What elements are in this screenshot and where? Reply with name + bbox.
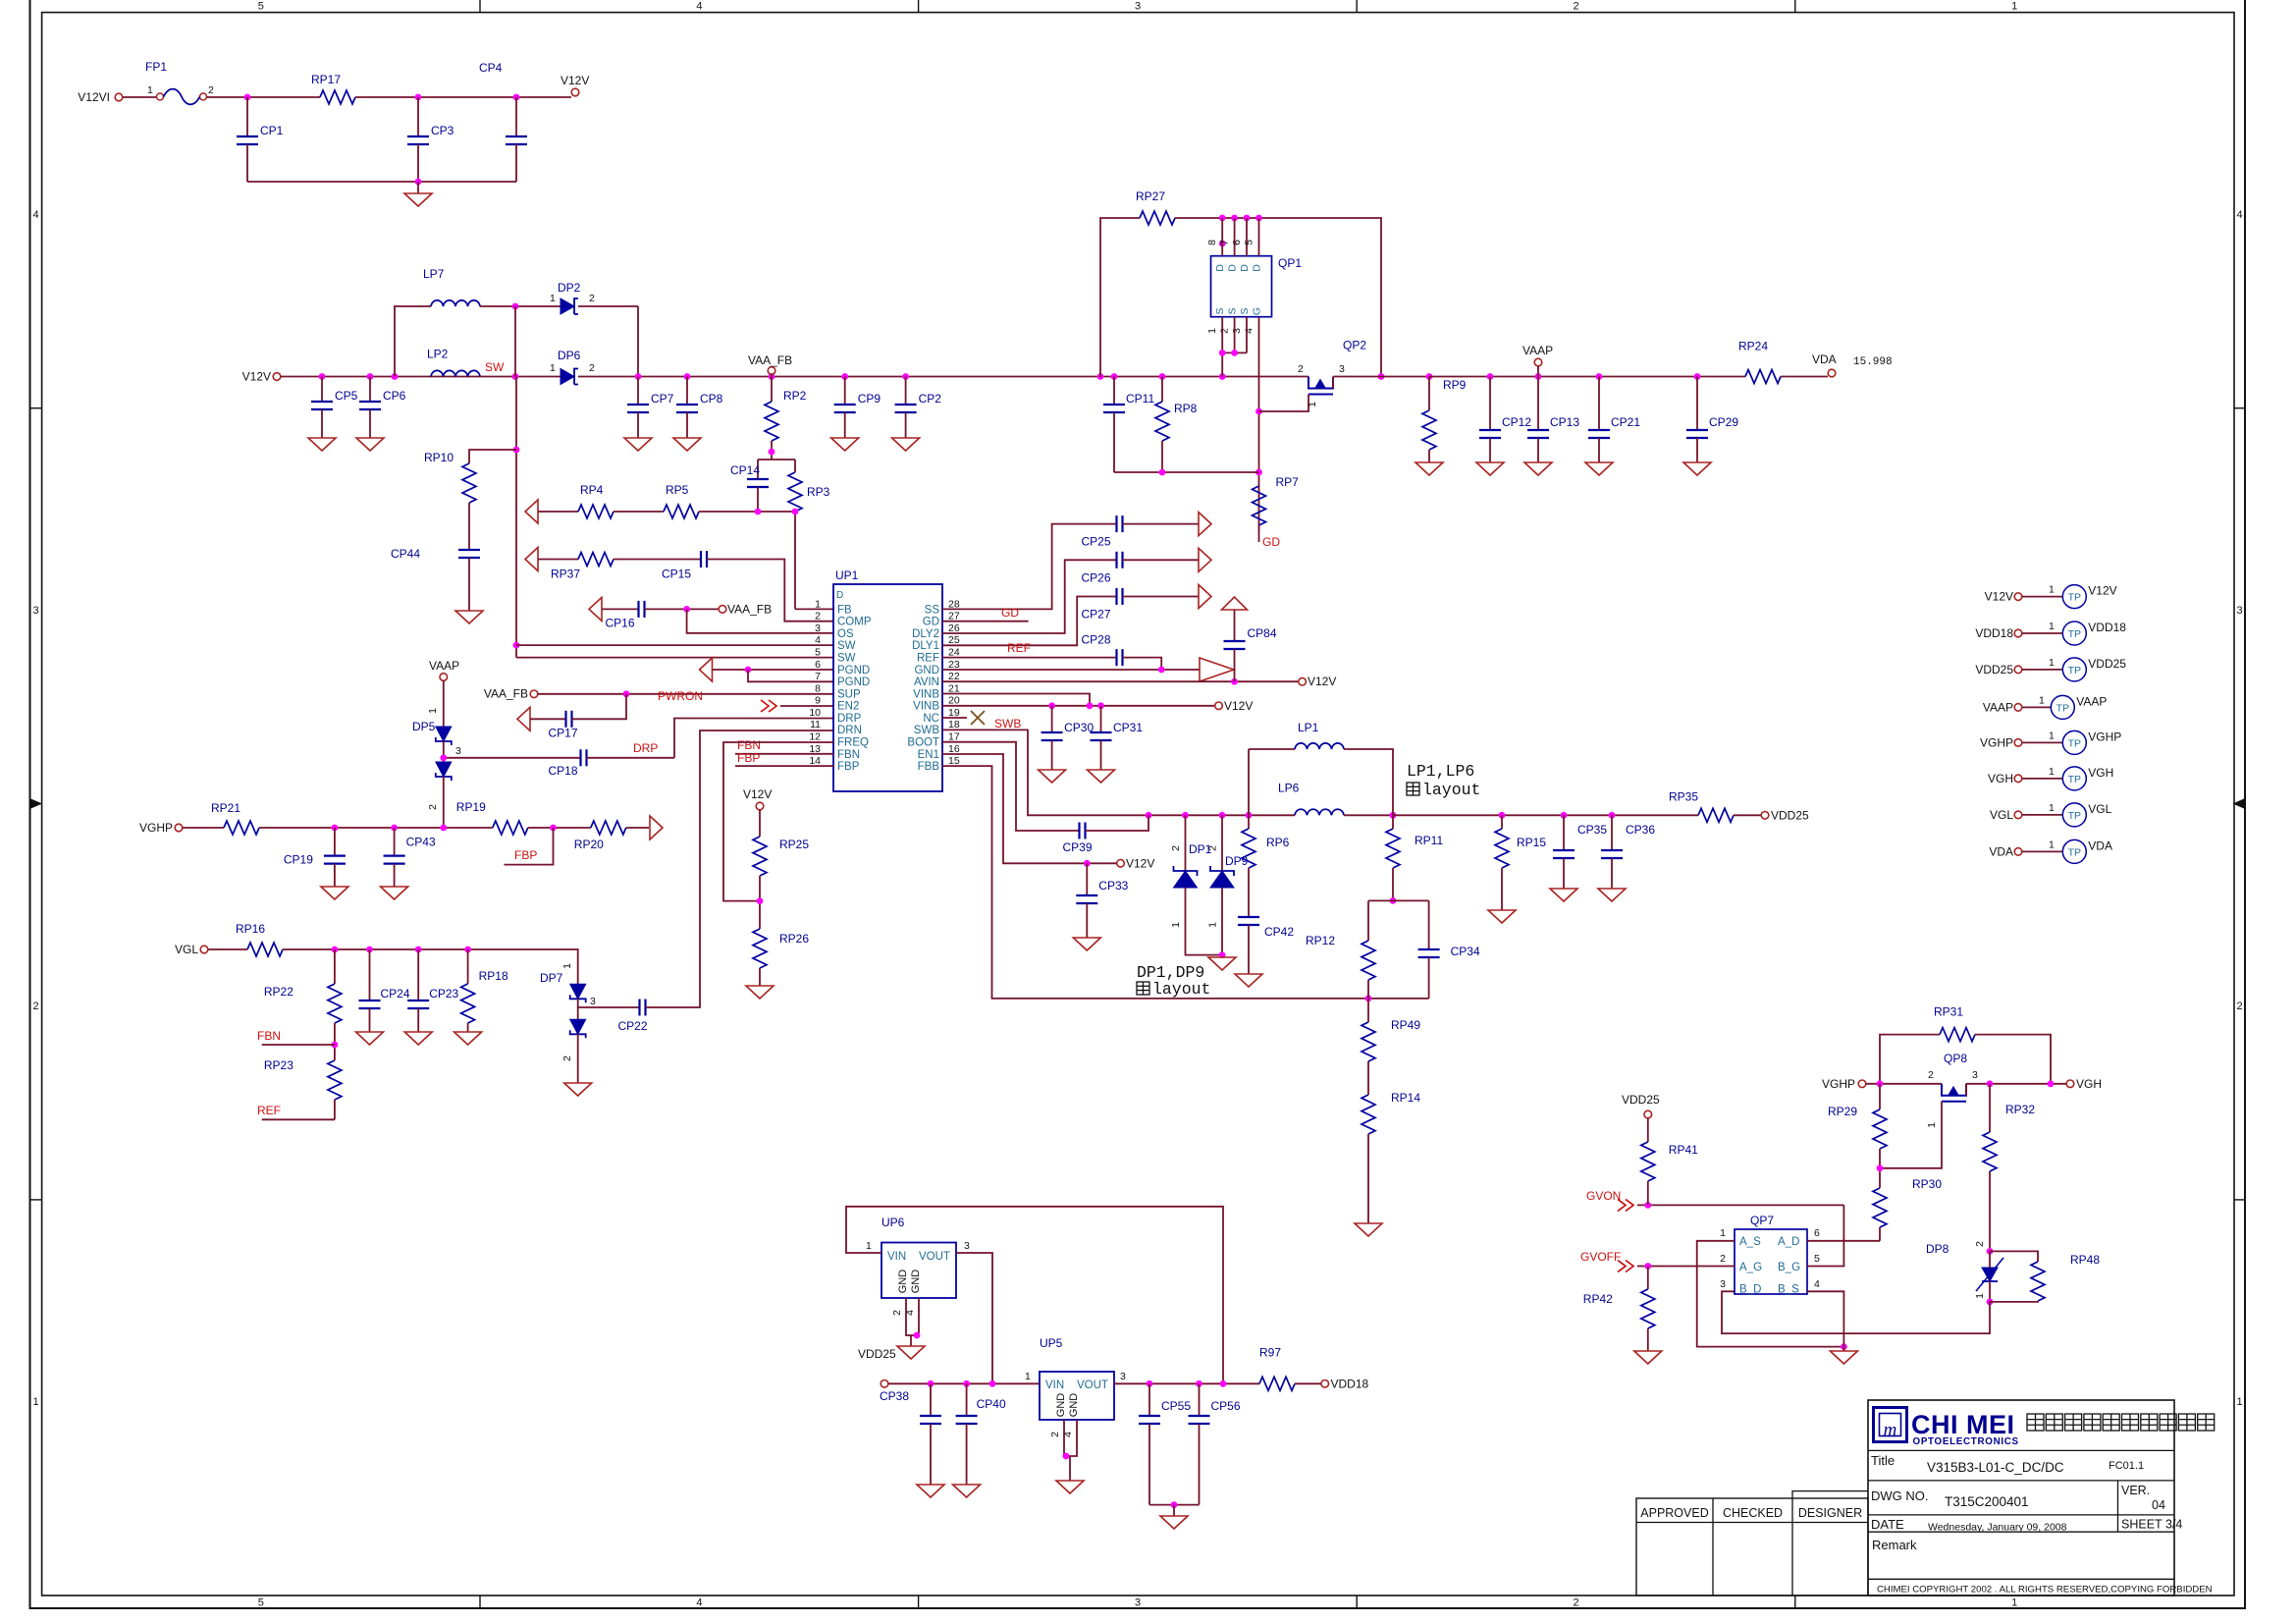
svg-text:2: 2 [815, 611, 821, 622]
wire [1989, 1281, 1991, 1302]
svg-text:VGL: VGL [1990, 808, 2013, 822]
terminal VGL [2014, 811, 2022, 819]
resistor RP29 [1873, 1109, 1887, 1149]
svg-text:m: m [1884, 1420, 1897, 1440]
junction [1097, 373, 1104, 380]
wire GND row [942, 669, 1200, 671]
svg-text:9: 9 [815, 695, 821, 707]
svg-text:CP84: CP84 [1248, 626, 1277, 640]
svg-text:RP21: RP21 [211, 801, 240, 815]
svg-text:GVOFF: GVOFF [1580, 1250, 1621, 1264]
wire [1148, 1424, 1150, 1505]
wire GVON [1637, 1204, 1843, 1206]
svg-text:RP16: RP16 [236, 922, 265, 936]
inductor LP2 [431, 370, 480, 376]
wire [966, 1383, 968, 1416]
svg-text:2: 2 [2236, 1001, 2242, 1012]
svg-text:FB: FB [837, 604, 852, 616]
terminal V12VI [115, 93, 123, 101]
svg-text:FBN: FBN [257, 1029, 281, 1043]
wire [1696, 377, 1698, 431]
ground [673, 438, 701, 451]
wire [469, 450, 516, 463]
svg-text:REF: REF [257, 1104, 281, 1117]
offpage chevron GVON [1618, 1199, 1633, 1211]
zener diode DP8 [1982, 1268, 1998, 1281]
junction [841, 373, 848, 380]
ground [892, 438, 920, 451]
svg-text:RP6: RP6 [1266, 836, 1290, 849]
wire [577, 999, 579, 1019]
svg-text:T315C200401: T315C200401 [1945, 1494, 2029, 1509]
terminal VGHP [2014, 739, 2022, 747]
junction [513, 447, 520, 454]
svg-text:1: 1 [550, 362, 556, 374]
wire [2022, 706, 2052, 708]
svg-text:D: D [1214, 264, 1226, 272]
wire [713, 669, 834, 671]
wire [1100, 706, 1102, 732]
svg-text:CP43: CP43 [406, 836, 436, 849]
wire [2022, 632, 2063, 634]
ground [1415, 462, 1443, 475]
wire [417, 1008, 419, 1032]
resistor RP41 [1641, 1142, 1655, 1181]
wire [1879, 1084, 1881, 1109]
wire [1086, 863, 1088, 895]
terminal VDD18 [2014, 629, 2022, 637]
junction [1561, 812, 1568, 819]
svg-text:CP21: CP21 [1611, 415, 1640, 429]
svg-text:3: 3 [1972, 1069, 1978, 1081]
svg-text:V12V: V12V [1985, 590, 2013, 604]
terminal V12V [1215, 702, 1223, 710]
svg-text:23: 23 [948, 659, 960, 671]
offpage chevron GVOFF [1618, 1261, 1633, 1272]
svg-text:SW: SW [837, 640, 856, 652]
zone tick right [2234, 1199, 2245, 1201]
svg-text:VDD25: VDD25 [1771, 809, 1809, 823]
svg-text:VGHP: VGHP [1980, 735, 2013, 749]
svg-text:1: 1 [2049, 839, 2055, 850]
svg-text:TP: TP [2056, 702, 2069, 714]
svg-text:UP1: UP1 [835, 568, 859, 582]
svg-text:SUP: SUP [837, 688, 861, 700]
wire [587, 757, 675, 759]
ground [1488, 910, 1516, 923]
svg-text:VOUT: VOUT [919, 1251, 950, 1263]
svg-text:VAAP: VAAP [1522, 344, 1553, 357]
capacitor CP30 [1041, 731, 1063, 733]
svg-text:CP34: CP34 [1451, 945, 1480, 958]
title block row lines [1868, 1449, 2174, 1451]
wire [394, 864, 396, 887]
wire [2022, 850, 2063, 852]
svg-text:CP55: CP55 [1161, 1399, 1191, 1413]
capacitor CP42 [1238, 916, 1259, 918]
wire [2022, 596, 2063, 598]
wire [1295, 1382, 1321, 1384]
svg-text:V12VI: V12VI [78, 90, 110, 104]
junction [1084, 860, 1091, 867]
svg-text:V12V: V12V [242, 370, 271, 384]
junction [366, 947, 373, 953]
center mark right [2233, 799, 2245, 809]
svg-text:2: 2 [1574, 1, 1579, 13]
offpage arrow [650, 816, 663, 839]
ground [454, 1032, 482, 1045]
svg-text:Remark: Remark [1872, 1538, 1917, 1552]
svg-text:5: 5 [258, 1597, 264, 1609]
junction [550, 825, 557, 832]
junction [244, 94, 251, 101]
wire FBB [942, 766, 1429, 999]
svg-text:5: 5 [1814, 1253, 1820, 1265]
ground [1235, 974, 1262, 987]
svg-text:CP18: CP18 [549, 764, 578, 778]
terminal VAAP [2014, 704, 2022, 712]
testpoint TP VGH [2062, 767, 2086, 790]
title block outline [1868, 1400, 2174, 1596]
junction [367, 373, 374, 380]
wire [1148, 1383, 1150, 1416]
capacitor CP15 [700, 551, 702, 568]
junction [755, 509, 762, 515]
IC UP1 body [833, 584, 942, 791]
capacitor CP6 [359, 401, 381, 403]
svg-text:5: 5 [1244, 240, 1255, 245]
wire [1367, 1134, 1369, 1223]
inductor LP1 [1295, 743, 1344, 749]
svg-text:RP22: RP22 [264, 985, 294, 999]
wire QP8 gate [1880, 1102, 1942, 1168]
svg-text:CP13: CP13 [1550, 415, 1579, 429]
wire [1501, 815, 1503, 829]
svg-text:VAA_FB: VAA_FB [748, 353, 792, 367]
wire [334, 949, 336, 984]
capacitor CP13 [1527, 429, 1549, 431]
junction [392, 373, 399, 380]
ground [381, 887, 408, 899]
svg-text:1: 1 [550, 293, 556, 304]
svg-text:VDA: VDA [1812, 352, 1837, 366]
capacitor CP56 [1189, 1415, 1210, 1417]
junction [1426, 373, 1433, 380]
approval table [1636, 1498, 1868, 1596]
wire [1173, 1505, 1175, 1516]
junction [1841, 1343, 1847, 1350]
svg-text:CP6: CP6 [383, 389, 406, 403]
junction [1365, 996, 1372, 1002]
wire [637, 306, 639, 377]
capacitor CP28 [1115, 649, 1117, 666]
wire [1344, 749, 1393, 815]
wire QP2 gate [1259, 395, 1309, 412]
junction [769, 373, 775, 380]
ground [1683, 462, 1711, 475]
wire QP1 S3 [1246, 317, 1248, 353]
wire [468, 503, 470, 550]
wire [1123, 559, 1200, 561]
wire [1185, 815, 1187, 871]
wire [183, 827, 224, 829]
svg-text:LP7: LP7 [423, 267, 445, 281]
resistor RP37 [578, 553, 614, 567]
svg-text:VER.: VER. [2121, 1484, 2150, 1497]
junction [1987, 1299, 1994, 1306]
no-connect X [971, 711, 985, 725]
testpoint TP VGHP [2062, 730, 2086, 754]
svg-text:8: 8 [1206, 240, 1218, 245]
svg-text:4: 4 [696, 1, 702, 13]
resistor RP30 [1873, 1188, 1887, 1227]
junction [792, 509, 799, 515]
svg-text:DLY1: DLY1 [912, 640, 939, 652]
svg-text:APPROVED: APPROVED [1640, 1506, 1708, 1520]
capacitor CP14 [747, 478, 769, 480]
terminal V12V [1117, 860, 1125, 868]
testpoint TP VGL [2062, 803, 2086, 827]
capacitor CP19 [324, 854, 346, 856]
svg-text:RP15: RP15 [1517, 836, 1546, 849]
wire [1086, 815, 1149, 831]
ground [356, 1032, 384, 1045]
svg-text:DRP: DRP [837, 713, 862, 725]
svg-text:VAAP: VAAP [2076, 694, 2107, 708]
wire [1990, 1251, 2038, 1262]
ground [404, 1032, 432, 1045]
wire [530, 718, 566, 720]
wire [528, 827, 591, 829]
wire [417, 949, 419, 1001]
terminal VAA_FB [719, 606, 726, 614]
svg-text:FBP: FBP [837, 761, 860, 773]
svg-text:GD: GD [1262, 535, 1280, 549]
svg-text:3: 3 [1135, 1597, 1141, 1609]
wire [1392, 815, 1394, 829]
svg-text:1: 1 [2039, 694, 2045, 706]
capacitor CP38 [920, 1415, 941, 1417]
svg-text:8: 8 [815, 682, 821, 694]
wire [281, 376, 561, 378]
svg-text:7: 7 [815, 671, 821, 682]
zone tick top [479, 0, 481, 13]
svg-text:2: 2 [589, 293, 595, 304]
svg-text:G: G [1252, 307, 1263, 315]
junction [1987, 1248, 1994, 1255]
svg-text:GVON: GVON [1586, 1189, 1621, 1203]
diode DP5b [436, 762, 452, 777]
wire [1100, 740, 1102, 770]
svg-text:1: 1 [2011, 1, 2017, 13]
junction [415, 94, 422, 101]
wire FBN stub [735, 753, 833, 755]
wire [645, 608, 720, 610]
wire [1161, 441, 1163, 472]
diode DP7 [570, 984, 586, 999]
wire QP1 G [1258, 317, 1260, 530]
ground [1634, 1351, 1662, 1364]
wire [1100, 218, 1140, 377]
junction [1087, 702, 1094, 709]
wire [905, 377, 907, 406]
svg-text:VGH: VGH [2088, 766, 2113, 780]
svg-text:GND: GND [897, 1270, 909, 1294]
wire [1367, 980, 1369, 999]
svg-text:SW: SW [485, 360, 505, 374]
ground [356, 438, 384, 451]
wire [1221, 815, 1223, 871]
svg-text:RP9: RP9 [1443, 378, 1467, 392]
svg-text:VAA_FB: VAA_FB [484, 687, 528, 701]
wire SUP [538, 693, 833, 695]
svg-text:LP1: LP1 [1298, 721, 1319, 734]
svg-text:2: 2 [1170, 845, 1182, 851]
junction [1987, 1080, 1994, 1087]
svg-text:3: 3 [1720, 1278, 1726, 1290]
wire [1965, 1084, 1967, 1096]
offpage arrow [589, 597, 602, 621]
svg-text:VDD25: VDD25 [2088, 657, 2126, 671]
wire [1086, 903, 1088, 938]
offpage arrow [1199, 585, 1211, 609]
svg-text:VAAP: VAAP [1983, 700, 2013, 714]
svg-text:OPTOELECTRONICS: OPTOELECTRONICS [1913, 1436, 2019, 1447]
svg-text:V12V: V12V [1308, 675, 1336, 688]
wire [1501, 868, 1503, 910]
svg-text:QP2: QP2 [1343, 339, 1366, 352]
svg-text:S: S [1239, 307, 1251, 314]
capacitor CP31 [1091, 731, 1112, 733]
svg-text:CP36: CP36 [1626, 823, 1655, 837]
svg-text:RP27: RP27 [1136, 189, 1165, 203]
svg-text:NC: NC [923, 713, 939, 725]
wire [443, 741, 445, 762]
ground [1073, 938, 1100, 950]
junction [1158, 667, 1165, 674]
wire [321, 377, 323, 403]
svg-text:RP41: RP41 [1669, 1143, 1698, 1157]
terminal V12V [571, 88, 579, 96]
capacitor CP18 [579, 749, 581, 766]
svg-text:GD: GD [923, 617, 939, 628]
wire [1114, 471, 1259, 473]
terminal V12V [756, 802, 764, 810]
capacitor CP39 [1078, 823, 1080, 839]
svg-text:RP48: RP48 [2070, 1253, 2100, 1267]
svg-text:16: 16 [948, 743, 960, 755]
svg-text:CP22: CP22 [618, 1019, 648, 1033]
wire [578, 1006, 640, 1008]
junction [989, 1380, 996, 1387]
ground [1355, 1223, 1382, 1236]
resistor RP11 [1386, 829, 1400, 868]
junction [440, 825, 447, 832]
wire [602, 608, 639, 610]
wire SS [942, 524, 1117, 610]
svg-text:LP2: LP2 [427, 348, 449, 361]
terminal VAAP [440, 674, 448, 681]
junction [332, 1042, 339, 1049]
wire UP6 loop [846, 1207, 1223, 1384]
wire [123, 96, 157, 98]
svg-text:1: 1 [561, 963, 573, 969]
wire [1367, 1061, 1369, 1095]
wire [759, 968, 761, 986]
svg-text:CP40: CP40 [977, 1397, 1006, 1411]
svg-text:1: 1 [2049, 730, 2055, 741]
junction [512, 303, 519, 310]
svg-text:04: 04 [2152, 1498, 2165, 1512]
svg-text:FP1: FP1 [145, 60, 167, 74]
svg-text:CHECKED: CHECKED [1723, 1506, 1783, 1520]
junction [1255, 215, 1262, 222]
wire [1842, 1347, 1844, 1351]
capacitor CP9 [834, 404, 856, 406]
offpage arrow [525, 548, 538, 571]
wire REF [942, 657, 1117, 659]
terminal V12V [2014, 593, 2022, 601]
wire QP1 S1 [1221, 317, 1223, 377]
offpage arrow GND [1200, 658, 1234, 681]
svg-text:3: 3 [815, 622, 821, 634]
svg-text:V12V: V12V [2088, 584, 2116, 598]
resistor RP23 [328, 1060, 342, 1100]
resistor RP12 [1362, 941, 1375, 980]
wire EN2 [780, 705, 833, 707]
svg-text:RP35: RP35 [1669, 789, 1698, 803]
wire QP1 top pin [1246, 218, 1248, 256]
wire [334, 1100, 336, 1119]
junction [1159, 373, 1166, 380]
junction [1877, 1080, 1884, 1087]
junction [1644, 1202, 1651, 1209]
wire [1879, 1227, 1881, 1241]
ground [917, 1485, 944, 1497]
inductor LP7 [431, 300, 480, 306]
svg-text:SW: SW [837, 653, 856, 665]
junction [512, 373, 519, 380]
svg-text:LP6: LP6 [1278, 781, 1300, 794]
svg-text:TP: TP [2068, 592, 2081, 604]
svg-text:CP19: CP19 [284, 853, 313, 867]
svg-text:RP26: RP26 [779, 932, 809, 946]
svg-text:2: 2 [1574, 1597, 1579, 1609]
svg-text:GND: GND [1068, 1393, 1080, 1418]
svg-text:CP15: CP15 [662, 568, 691, 581]
ground [746, 986, 774, 999]
svg-text:DP8: DP8 [1926, 1242, 1949, 1256]
wire [1248, 815, 1250, 829]
offpage arrow [525, 500, 538, 523]
zone tick top [918, 0, 920, 13]
IC UP6 body [881, 1243, 956, 1299]
svg-text:DP7: DP7 [540, 971, 563, 985]
wire [247, 181, 516, 183]
svg-text:1: 1 [2011, 1597, 2017, 1609]
wire [614, 511, 664, 513]
junction [391, 825, 398, 832]
wire pin1 A_S [1697, 1241, 1844, 1347]
svg-text:6: 6 [815, 659, 821, 671]
resistor RP18 [461, 984, 475, 1023]
wire [334, 864, 336, 887]
svg-text:15.998: 15.998 [1853, 356, 1893, 368]
svg-text:RP20: RP20 [574, 838, 604, 851]
junction [513, 94, 520, 101]
junction [1378, 373, 1385, 380]
svg-text:D: D [1227, 264, 1239, 272]
